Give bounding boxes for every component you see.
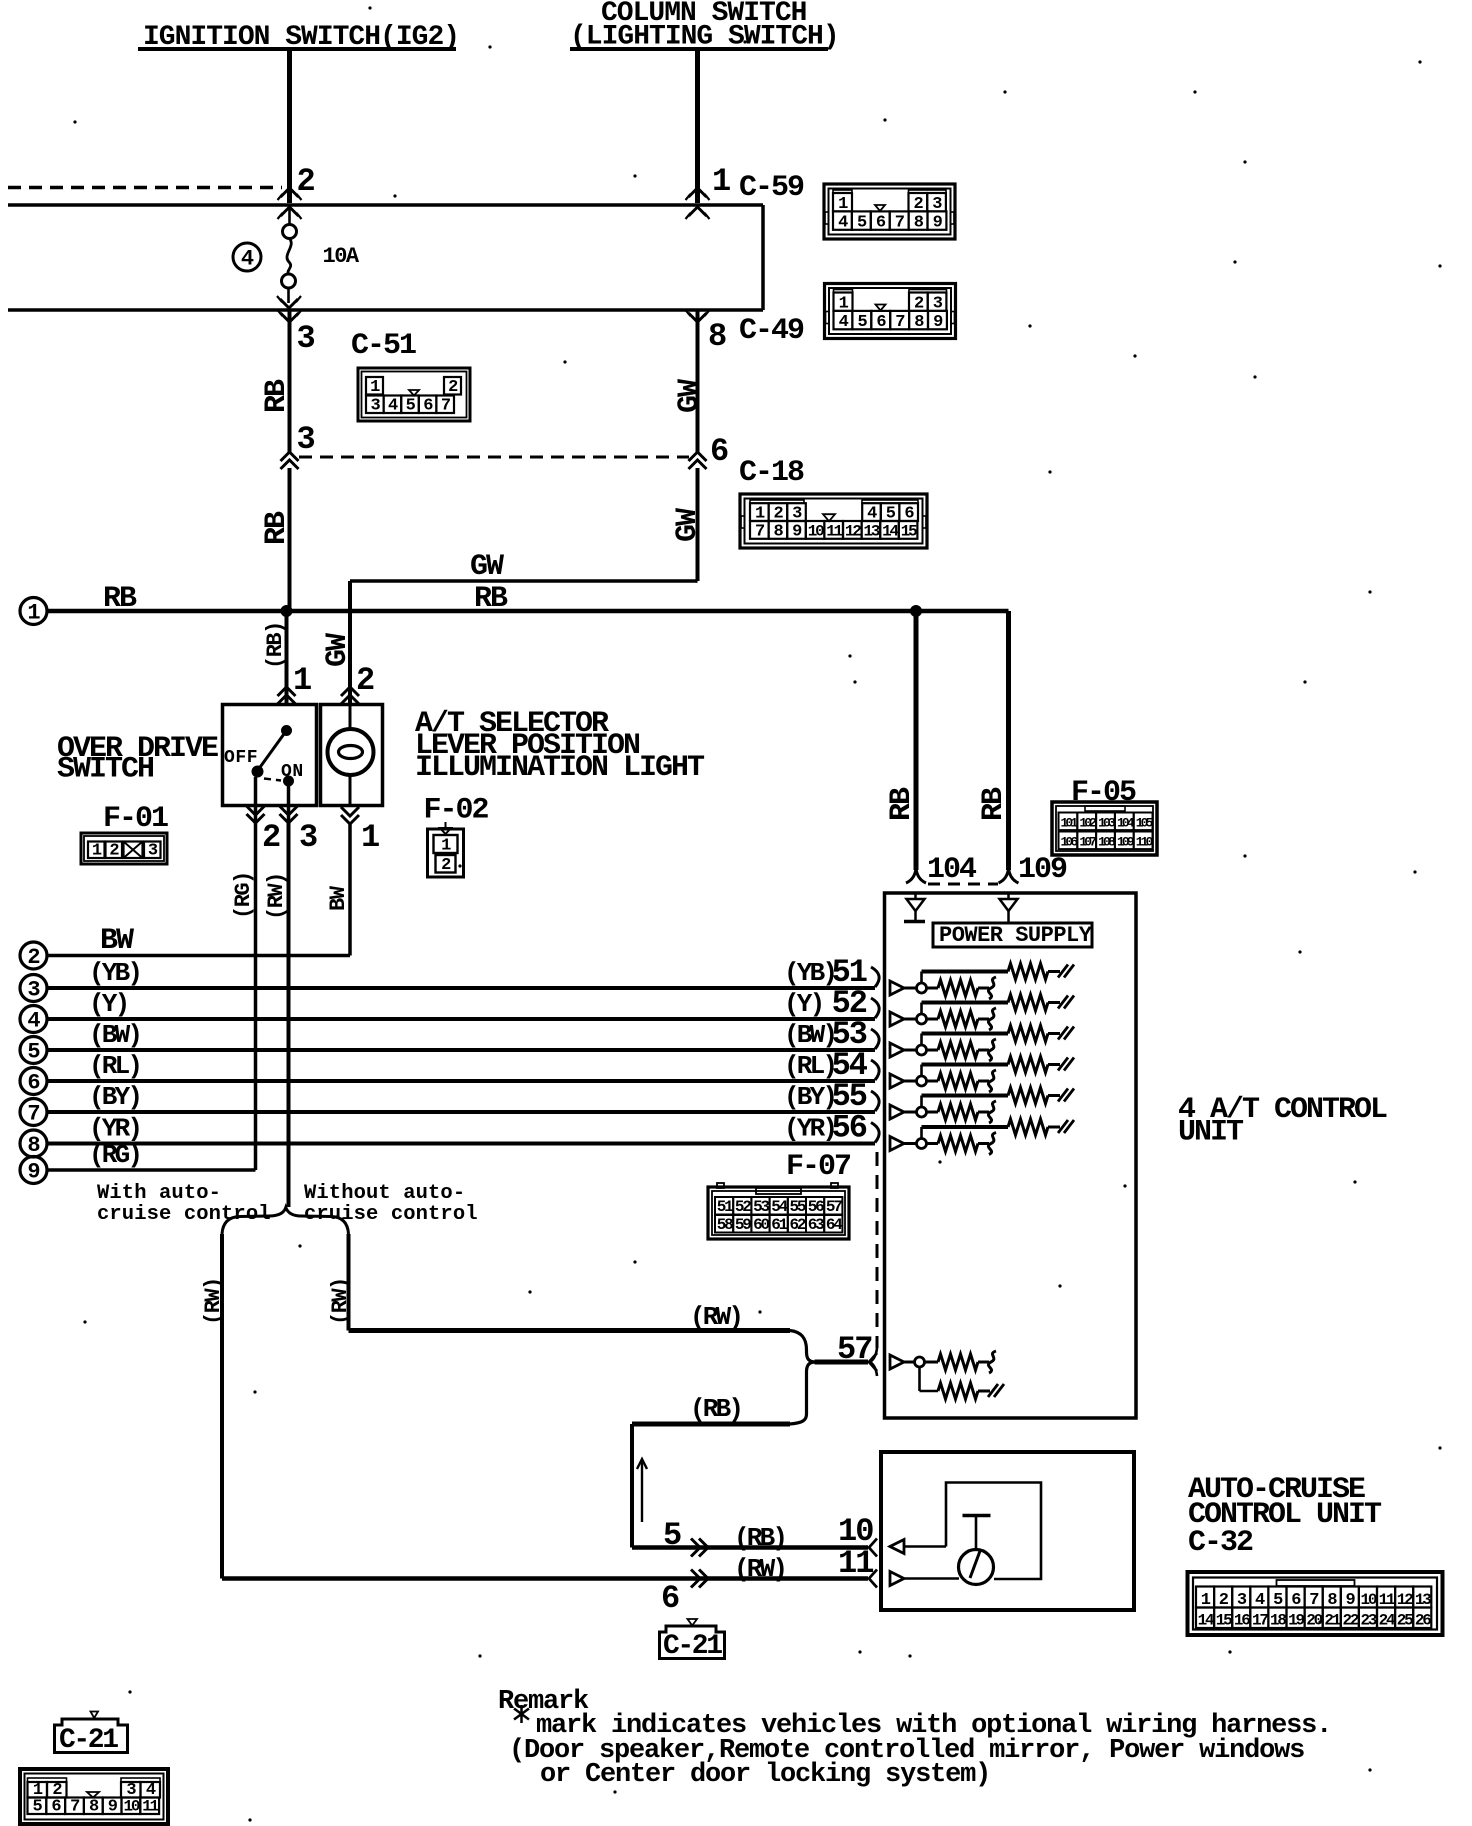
svg-text:(RG): (RG)	[231, 872, 256, 919]
svg-text:(RG): (RG)	[89, 1140, 140, 1170]
svg-text:5: 5	[857, 213, 867, 232]
circled node 9 / wire (RG)	[20, 1157, 47, 1184]
wire (RG) from switch pin 2	[254, 777, 258, 821]
svg-text:58: 58	[717, 1216, 733, 1234]
svg-text:C-18: C-18	[739, 456, 804, 490]
svg-text:63: 63	[808, 1216, 824, 1234]
svg-text:(YB): (YB)	[784, 958, 835, 988]
svg-text:(RB): (RB)	[690, 1394, 741, 1424]
wire (RW) without auto-cruise branch	[347, 1234, 351, 1331]
circled node 7 / wire (BY) to pin 55	[20, 1099, 47, 1126]
dashed connector boundary	[928, 883, 998, 886]
wire RB to pin 109	[1006, 611, 1011, 870]
wire GW vertical to corner	[696, 468, 700, 581]
svg-text:1: 1	[92, 842, 102, 861]
svg-text:1: 1	[293, 662, 311, 699]
svg-text:22: 22	[1342, 1612, 1358, 1630]
wire from column switch	[695, 51, 700, 203]
svg-text:(RL): (RL)	[784, 1051, 835, 1081]
svg-text:POWER SUPPLY: POWER SUPPLY	[939, 923, 1093, 948]
svg-text:4: 4	[388, 397, 398, 416]
svg-text:2: 2	[27, 945, 39, 970]
svg-text:8: 8	[27, 1133, 40, 1158]
circled node 2 / wire BW	[20, 942, 47, 969]
connector C-21 reference (bottom left)	[91, 1712, 99, 1719]
connector C-32	[1188, 1572, 1443, 1635]
OFF contact	[252, 766, 263, 777]
svg-text:15: 15	[1216, 1612, 1232, 1630]
circled node 6 / wire (RL) to pin 54	[20, 1068, 47, 1095]
ground symbol pin 109	[1007, 893, 1010, 899]
svg-text:8: 8	[708, 318, 726, 355]
wire GW horizontal	[352, 579, 698, 583]
pin 11 triangle	[890, 1572, 904, 1586]
svg-text:2: 2	[109, 842, 119, 861]
svg-text:C-21: C-21	[59, 1725, 118, 1756]
svg-text:107: 107	[1079, 835, 1096, 850]
svg-text:GW: GW	[673, 379, 707, 413]
svg-text:(BW): (BW)	[89, 1020, 140, 1050]
svg-text:12: 12	[845, 522, 861, 540]
svg-text:64: 64	[826, 1216, 843, 1234]
option split brace	[222, 1208, 349, 1235]
svg-text:6: 6	[27, 1071, 39, 1096]
svg-text:(RW): (RW)	[734, 1554, 785, 1584]
svg-text:9: 9	[933, 313, 943, 332]
svg-text:2: 2	[262, 819, 280, 856]
svg-text:24: 24	[1379, 1612, 1396, 1630]
svg-text:56: 56	[808, 1198, 824, 1216]
svg-text:53: 53	[753, 1198, 769, 1216]
wire RB to pin 104	[914, 611, 919, 870]
connector C-51	[358, 368, 470, 421]
svg-text:(RW): (RW)	[328, 1278, 353, 1325]
svg-text:6: 6	[876, 313, 886, 332]
svg-text:9: 9	[792, 522, 802, 541]
ON contact	[284, 776, 294, 786]
svg-text:C-59: C-59	[739, 171, 804, 205]
svg-text:104: 104	[927, 853, 977, 887]
wire (RW) with auto-cruise branch	[220, 1234, 224, 1579]
svg-text:3: 3	[27, 978, 40, 1003]
connector C-21 reference (center)	[688, 1619, 698, 1626]
solenoid channel pin 57	[890, 1355, 904, 1369]
svg-text:GW: GW	[470, 550, 504, 584]
connector F-01	[81, 833, 167, 864]
circled node 3 / wire (YB) to pin 51	[20, 975, 47, 1002]
svg-text:10: 10	[123, 1798, 139, 1816]
svg-text:(RB): (RB)	[734, 1523, 785, 1553]
ground symbol pin 104	[914, 893, 917, 899]
svg-text:60: 60	[753, 1216, 769, 1234]
brace joining (RW)/(RB) into pin 57	[790, 1331, 815, 1425]
wire from ignition switch IG2	[287, 51, 292, 203]
svg-text:(RW): (RW)	[264, 873, 289, 920]
connector C-59	[824, 184, 955, 239]
junction arrows at bus line 1	[281, 188, 299, 197]
asterisk mark	[520, 1705, 523, 1723]
svg-text:UNIT: UNIT	[1178, 1116, 1244, 1150]
svg-text:5: 5	[27, 1040, 40, 1065]
svg-text:1: 1	[441, 837, 451, 856]
dashed link OFF to ON	[264, 779, 281, 781]
svg-text:19: 19	[1288, 1612, 1304, 1630]
svg-text:ILLUMINATION LIGHT: ILLUMINATION LIGHT	[415, 751, 705, 785]
svg-text:5: 5	[406, 397, 416, 416]
svg-text:8: 8	[89, 1798, 99, 1817]
svg-text:55: 55	[789, 1198, 805, 1216]
svg-text:F-07: F-07	[786, 1150, 850, 1184]
svg-text:1: 1	[712, 163, 730, 200]
svg-text:13: 13	[1415, 1591, 1431, 1609]
actuator inner circuit	[946, 1483, 1041, 1580]
svg-text:8: 8	[914, 213, 924, 232]
svg-text:F-02: F-02	[424, 794, 489, 828]
svg-text:(BW): (BW)	[784, 1020, 835, 1050]
svg-text:23: 23	[1361, 1612, 1377, 1630]
solenoid channel pin 53	[890, 1043, 904, 1057]
solenoid channel pin 55	[890, 1105, 904, 1119]
svg-text:11: 11	[838, 1545, 873, 1582]
svg-text:14: 14	[882, 522, 899, 540]
svg-text:cruise control: cruise control	[304, 1203, 478, 1226]
svg-text:RB: RB	[977, 787, 1011, 821]
svg-text:With auto-: With auto-	[97, 1182, 221, 1205]
svg-text:BW: BW	[100, 924, 134, 958]
svg-text:Without auto-: Without auto-	[304, 1182, 465, 1205]
solenoid channel pin 54	[890, 1074, 904, 1088]
svg-text:RB: RB	[474, 582, 508, 616]
svg-text:(Y): (Y)	[784, 989, 822, 1019]
svg-text:RB: RB	[260, 511, 294, 545]
svg-text:10: 10	[808, 522, 824, 540]
svg-text:3: 3	[299, 819, 317, 856]
svg-text:109: 109	[1018, 853, 1067, 887]
svg-text:9: 9	[108, 1798, 118, 1817]
svg-text:54: 54	[771, 1198, 788, 1216]
svg-text:(YR): (YR)	[89, 1114, 140, 1144]
switch blade	[258, 731, 287, 771]
direction arrow up	[641, 1462, 643, 1522]
4 A/T control unit box	[885, 893, 1137, 1418]
bus wire lower rail	[8, 308, 763, 312]
svg-text:25: 25	[1397, 1612, 1413, 1630]
svg-text:6: 6	[51, 1798, 61, 1817]
svg-text:(YR): (YR)	[784, 1114, 835, 1144]
svg-text:6: 6	[423, 397, 433, 416]
wire (RB) corner down	[630, 1424, 634, 1548]
circled node 1	[20, 598, 47, 625]
circled node 4 / wire (Y) to pin 52	[20, 1006, 47, 1033]
svg-text:7: 7	[27, 1102, 39, 1127]
scan noise	[368, 6, 371, 9]
svg-text:15: 15	[901, 522, 917, 540]
svg-text:1: 1	[361, 819, 379, 856]
solenoid channel pin 56	[890, 1137, 904, 1151]
circled node 5 / wire (BW) to pin 53	[20, 1037, 47, 1064]
svg-text:GW: GW	[321, 633, 355, 667]
over drive switch box	[223, 705, 317, 806]
svg-text:1: 1	[27, 601, 40, 626]
wire (RB) to auto-cruise pin 10	[632, 1545, 868, 1550]
svg-text:4: 4	[839, 313, 849, 332]
svg-text:9: 9	[27, 1160, 39, 1185]
svg-text:RB: RB	[260, 379, 294, 413]
wire RB bus horizontal	[47, 609, 1009, 614]
svg-text:11: 11	[1379, 1591, 1395, 1609]
svg-text:57: 57	[826, 1198, 842, 1216]
svg-text:6: 6	[876, 213, 886, 232]
svg-text:7: 7	[70, 1798, 80, 1817]
svg-text:C-32: C-32	[1188, 1526, 1253, 1560]
svg-text:(BY): (BY)	[89, 1082, 140, 1112]
svg-text:or Center door locking system): or Center door locking system)	[540, 1760, 990, 1790]
svg-text:F-01: F-01	[103, 802, 168, 836]
lamp symbol	[349, 705, 352, 730]
svg-text:61: 61	[771, 1216, 787, 1234]
svg-text:cruise control: cruise control	[97, 1203, 271, 1226]
wire RB vertical to RB bus	[288, 468, 292, 611]
svg-text:3: 3	[370, 397, 380, 416]
svg-text:18: 18	[1270, 1612, 1286, 1630]
power supply box	[933, 923, 1092, 947]
svg-text:(RW): (RW)	[690, 1302, 741, 1332]
svg-text:3: 3	[148, 842, 158, 861]
svg-text:10A: 10A	[323, 244, 360, 269]
svg-text:8: 8	[914, 313, 924, 332]
svg-text:5: 5	[33, 1798, 43, 1817]
svg-text:2: 2	[297, 163, 315, 200]
solenoid channel pin 51	[890, 981, 904, 995]
svg-text:14: 14	[1198, 1612, 1215, 1630]
svg-text:1: 1	[370, 378, 380, 397]
circled node 8 / wire (YR) to pin 56	[20, 1130, 47, 1157]
svg-text:10: 10	[1361, 1591, 1377, 1609]
svg-text:BW: BW	[326, 885, 351, 911]
svg-text:21: 21	[1324, 1612, 1340, 1630]
svg-text:(RL): (RL)	[89, 1051, 140, 1081]
bus wire right edge	[761, 205, 765, 310]
svg-text:C-49: C-49	[739, 314, 804, 348]
svg-text:7: 7	[895, 313, 905, 332]
connector F-05	[1052, 802, 1157, 855]
svg-text:4: 4	[27, 1009, 40, 1034]
svg-text:3: 3	[297, 320, 315, 357]
svg-text:(BY): (BY)	[784, 1082, 835, 1112]
circled 4 fuse number	[233, 243, 261, 271]
svg-text:2: 2	[448, 378, 458, 397]
connector F-02	[440, 828, 451, 834]
svg-text:4: 4	[838, 213, 848, 232]
connector C-21	[20, 1769, 168, 1824]
wire BW from light pin 1	[341, 815, 359, 824]
svg-text:(RW): (RW)	[201, 1278, 226, 1325]
A/T selector lever position illumination light box	[321, 705, 383, 806]
bus wire upper rail	[8, 203, 763, 207]
svg-text:4: 4	[241, 247, 254, 272]
svg-text:OFF: OFF	[224, 748, 258, 768]
svg-text:(Y): (Y)	[89, 989, 127, 1019]
wire RB vertical from fuse	[288, 311, 292, 452]
svg-text:SWITCH: SWITCH	[57, 753, 153, 787]
wire dashed option branch	[299, 456, 689, 459]
svg-text:(YB): (YB)	[89, 958, 140, 988]
svg-text:RB: RB	[885, 787, 919, 821]
fuse 10A (circled 4)	[288, 206, 291, 225]
connector C-49	[825, 284, 956, 339]
svg-text:C-21: C-21	[663, 1631, 722, 1662]
svg-text:C-51: C-51	[351, 329, 416, 363]
svg-text:9: 9	[933, 213, 943, 232]
svg-text:3: 3	[297, 421, 315, 458]
svg-text:GW: GW	[671, 508, 705, 542]
svg-text:7: 7	[441, 397, 451, 416]
junction dot at overdrive branch	[281, 606, 292, 617]
wire (RW) to auto-cruise pin 11	[222, 1576, 868, 1581]
svg-text:2: 2	[441, 856, 451, 875]
actuator motor symbol	[959, 1550, 994, 1585]
svg-text:62: 62	[789, 1216, 805, 1234]
svg-text:7: 7	[755, 522, 765, 541]
svg-text:12: 12	[1397, 1591, 1413, 1609]
svg-text:52: 52	[735, 1198, 751, 1216]
svg-text:8: 8	[774, 522, 784, 541]
svg-text:6: 6	[710, 433, 728, 470]
svg-text:26: 26	[1415, 1612, 1431, 1630]
wire GW vertical from column switch	[696, 311, 700, 452]
switch pivot contact	[282, 726, 292, 736]
junction dot at control unit branch	[911, 606, 922, 617]
svg-text:17: 17	[1252, 1612, 1268, 1630]
svg-text:(RB): (RB)	[263, 622, 288, 669]
svg-text:11: 11	[142, 1798, 158, 1816]
connector F-07	[708, 1187, 849, 1239]
svg-text:7: 7	[895, 213, 905, 232]
pin 10 triangle	[890, 1540, 904, 1554]
svg-text:5: 5	[663, 1517, 681, 1554]
svg-text:56: 56	[832, 1110, 867, 1147]
svg-text:51: 51	[717, 1198, 733, 1216]
svg-text:F-05: F-05	[1071, 776, 1136, 810]
wire (RW) from switch pin 3	[287, 786, 291, 821]
svg-text:13: 13	[863, 522, 879, 540]
dashed optional boundary	[876, 1152, 879, 1348]
wire dashed branch at top left	[8, 186, 282, 190]
svg-text:16: 16	[1234, 1612, 1250, 1630]
svg-text:6: 6	[661, 1580, 679, 1617]
svg-text:11: 11	[826, 522, 842, 540]
connector C-18	[740, 494, 927, 548]
solenoid channel pin 52	[890, 1012, 904, 1026]
svg-text:59: 59	[735, 1216, 751, 1234]
auto-cruise control unit box	[881, 1452, 1134, 1610]
svg-text:2: 2	[356, 662, 374, 699]
wire (RB) to overdrive switch	[285, 611, 289, 705]
svg-text:5: 5	[857, 313, 867, 332]
